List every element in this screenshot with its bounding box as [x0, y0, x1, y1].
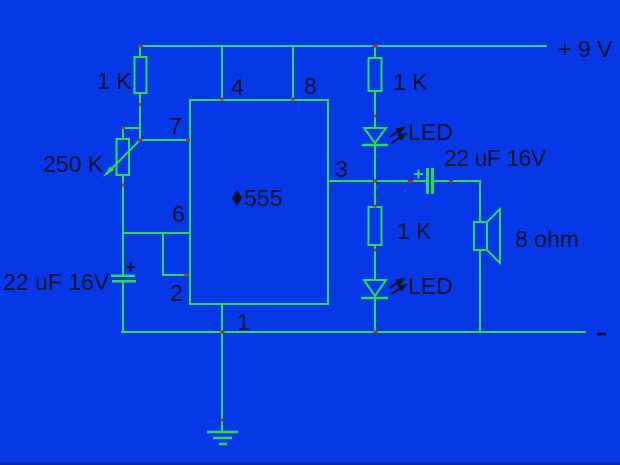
node pin2 at IC	[185, 274, 189, 277]
LED D1	[362, 128, 388, 145]
svg-text:LED: LED	[408, 273, 453, 299]
node wire left of C2	[408, 180, 413, 183]
resistor R2 1K	[369, 58, 382, 91]
node pin8 at IC	[292, 98, 295, 101]
LED D2 light arrows	[390, 279, 406, 294]
svg-text:7: 7	[169, 113, 182, 139]
node rail left corner	[138, 45, 143, 48]
svg-text:4: 4	[231, 74, 244, 100]
svg-text:8 ohm: 8 ohm	[515, 226, 579, 252]
svg-text:1 K: 1 K	[397, 218, 432, 244]
resistor R1 1K	[135, 57, 147, 93]
node jog corner	[121, 127, 125, 130]
wire jog to pot top	[123, 128, 140, 140]
node below pot	[122, 184, 125, 187]
node rail at R2 branch	[373, 45, 378, 48]
node wire right of C2	[449, 180, 453, 183]
LED D2	[361, 280, 388, 298]
capacitor C2 22uF plates	[426, 168, 434, 194]
svg-text:22 uF 16V: 22 uF 16V	[444, 145, 547, 171]
svg-text:3: 3	[335, 156, 348, 182]
svg-text:250 K: 250 K	[43, 151, 104, 177]
node pin7 wiper junction	[139, 139, 143, 142]
wire rail to R1	[139, 46, 141, 58]
wire R1 to pin7	[139, 93, 141, 141]
wire pin4	[221, 46, 223, 100]
wire C1 to bottom rail	[122, 282, 124, 332]
wire pot bottom to C1	[122, 175, 124, 275]
svg-text:8: 8	[304, 73, 317, 99]
node pin7 at IC	[186, 139, 190, 142]
potentiometer R4 250K body	[117, 139, 130, 175]
wire LED1 to R3	[374, 146, 376, 207]
node ground stem	[221, 419, 224, 422]
wire pin8	[292, 46, 294, 100]
IC U1 555 body	[190, 100, 328, 304]
wire pin1 to ground	[221, 332, 223, 432]
svg-text:+ 9 V: + 9 V	[558, 36, 613, 62]
node above R3	[374, 205, 377, 208]
svg-text:LED: LED	[408, 119, 453, 145]
wire pin1	[221, 304, 223, 332]
node below R2	[374, 115, 377, 118]
svg-text:1: 1	[237, 309, 250, 335]
junction nodes (red)	[121, 45, 453, 422]
bottom edge band	[0, 463, 620, 465]
wire pin6	[123, 232, 190, 234]
wire pin2 jog	[163, 233, 190, 275]
IC U1 diamond mark	[232, 190, 242, 206]
ground	[207, 432, 238, 444]
resistor R3 1K	[369, 207, 382, 245]
svg-text:2: 2	[170, 280, 183, 306]
speaker LS1 cone	[487, 209, 500, 263]
wire pin7	[140, 139, 190, 141]
label minus terminal	[597, 333, 606, 336]
node pin4 at IC	[221, 98, 224, 101]
speaker LS1 body	[474, 222, 487, 250]
svg-text:1 K: 1 K	[97, 68, 132, 94]
wire pin3	[328, 180, 426, 182]
capacitor C1 plus sign	[126, 263, 135, 272]
LED D1 light arrows	[390, 128, 406, 143]
node below R3	[374, 249, 377, 252]
wire LED2 to bottom rail	[374, 299, 376, 332]
wire speaker to bottom rail	[479, 250, 481, 332]
wire bottom rail	[121, 331, 586, 333]
node pin3 junction	[373, 180, 377, 183]
wire +9V top rail	[140, 45, 547, 47]
svg-text:6: 6	[172, 201, 185, 227]
wire R3 to LED2	[374, 245, 376, 280]
svg-text:22 uF 16V: 22 uF 16V	[3, 269, 110, 295]
svg-text:1 K: 1 K	[393, 69, 428, 95]
potentiometer R4 wiper arrow	[103, 140, 140, 177]
node below R1	[139, 103, 142, 106]
wire rail to R2	[374, 46, 376, 58]
svg-text:555: 555	[244, 185, 282, 211]
wire C2 to speaker	[434, 181, 480, 222]
capacitor C2 plus sign	[414, 170, 423, 179]
capacitor C1 22uF plates	[111, 275, 136, 283]
node rail at ground	[221, 331, 225, 334]
node rail at LED chain	[374, 331, 378, 334]
wire R2 to LED1	[374, 91, 376, 128]
